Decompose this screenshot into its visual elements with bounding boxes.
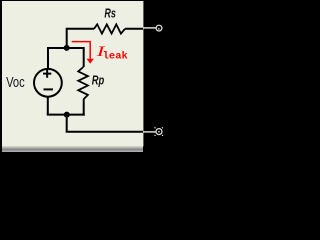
wire: bottom rail (upper) (47, 114, 85, 116)
svg-text:Rp: Rp (92, 72, 105, 87)
node junction dot (bottom) (64, 112, 70, 118)
wire: Rp bottom lead (83, 100, 85, 116)
wire: Voc bottom lead (47, 97, 49, 115)
window bottom bevel strip (2, 146, 143, 152)
wire: bottom rail to panel edge (66, 131, 143, 133)
voltage source Voc (34, 69, 62, 97)
resistor Rp (78, 67, 88, 100)
wire: left drop from top rail to mid rail (66, 28, 68, 48)
resistor Rs (94, 24, 125, 33)
wire: bottom drop (66, 114, 68, 132)
wire: Rp branch top lead (83, 47, 85, 67)
node junction dot (top) (64, 45, 70, 51)
wire: Voc top lead (47, 47, 49, 69)
current arrow Ileak (72, 42, 94, 64)
terminal (bottom output port) (154, 127, 163, 136)
wire: top rail from left corner to Rs (67, 28, 94, 30)
wire: white continuation to bottom terminal (143, 131, 156, 133)
svg-text:Voc: Voc (6, 75, 25, 91)
wire: top rail from Rs to panel edge (125, 28, 143, 30)
svg-text:Rs: Rs (104, 5, 116, 20)
terminal (top output port) (156, 25, 162, 31)
wire: white continuation to top terminal (143, 27, 156, 29)
svg-text:leak: leak (103, 51, 128, 63)
wire: mid rail (48, 47, 84, 49)
schematic panel background (2, 1, 143, 146)
